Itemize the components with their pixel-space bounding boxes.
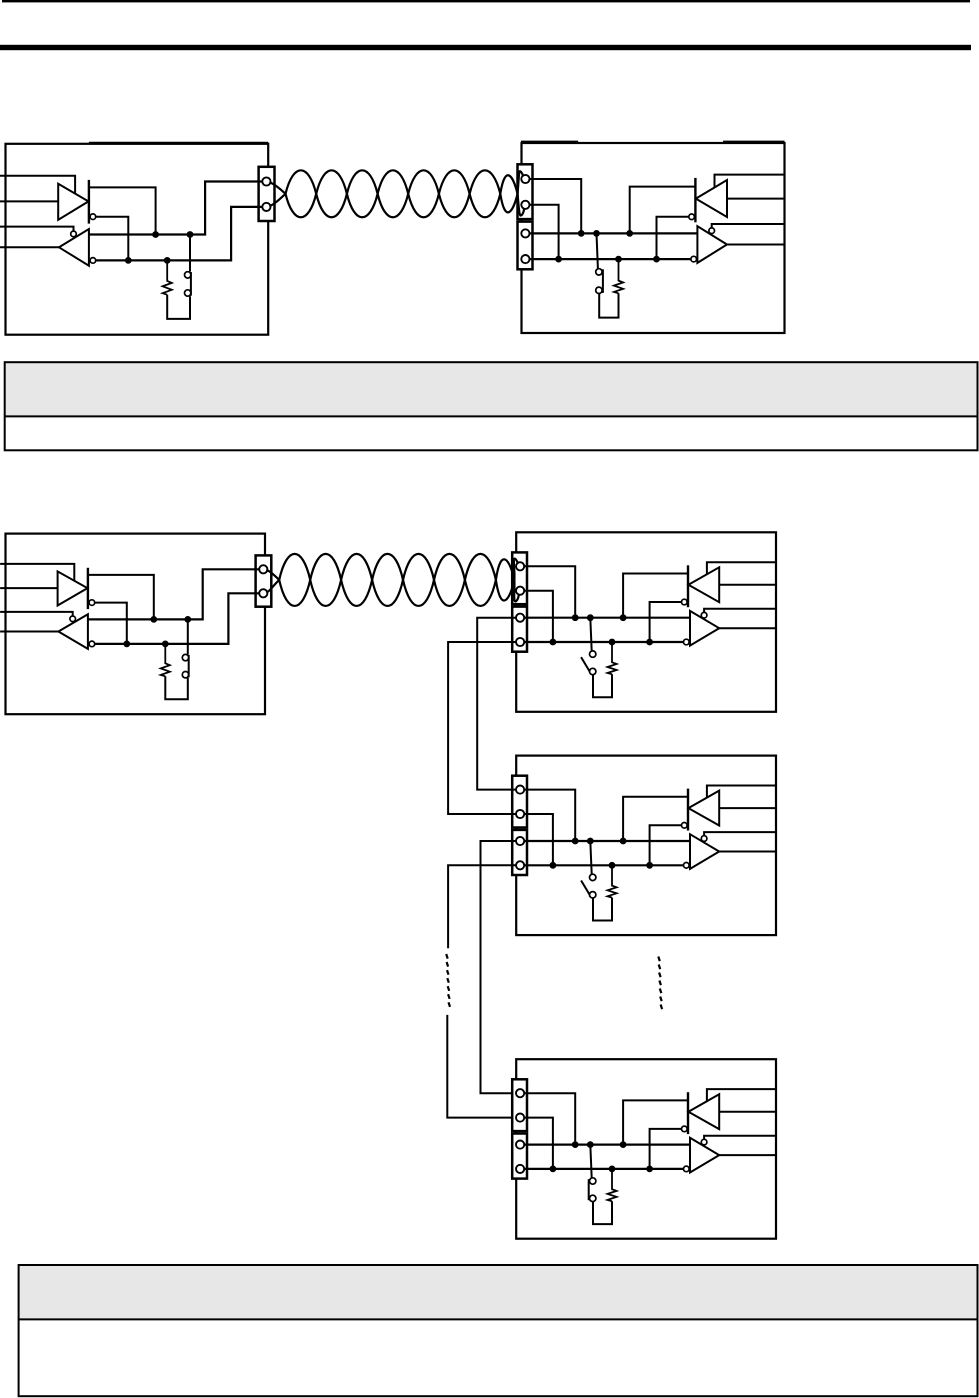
bus wire CN6 pin 4 to CN7 pin 2 xyxy=(448,642,516,814)
junction U7-Z / line B xyxy=(646,639,653,646)
page top rule xyxy=(2,0,970,2)
junction U9-Y / line A xyxy=(620,838,627,845)
master unit box top edge overlap xyxy=(89,142,268,144)
receiver U10 enable wire xyxy=(704,832,776,836)
junction line A / switch SW1 xyxy=(187,231,194,238)
driver U5 inverting output bubble xyxy=(89,600,95,606)
connector CN9 pin 2 xyxy=(516,1114,524,1122)
junction pin2 drop / line B xyxy=(555,256,562,263)
termination switch SW3 (closed) xyxy=(182,619,188,678)
junction U1-Z / line B xyxy=(125,257,132,264)
connector CN1 pin 2 xyxy=(262,203,270,211)
junction U1-Y / line A xyxy=(152,231,159,238)
driver U3 enable wire xyxy=(715,175,785,189)
connector CN6 body (bus out) xyxy=(512,607,527,652)
slave unit 1 outer box xyxy=(516,532,776,712)
receiver U6 enable wire xyxy=(0,612,73,616)
bus wire CN8 pin 3 to CN9 pin 1 xyxy=(481,841,517,1093)
connector CN10 body (bus out) xyxy=(512,1134,527,1179)
receiver U8 enable wire xyxy=(704,609,776,613)
line B wire xyxy=(524,864,684,866)
connector CN7 body (bus in) xyxy=(512,776,527,828)
master unit (multi-drop) outer box xyxy=(6,534,266,715)
connector CN2 pin 2 xyxy=(521,201,529,209)
wire U11 output Z to line B xyxy=(650,1129,682,1169)
wire U7 output Z to line B xyxy=(650,602,682,642)
line A wire xyxy=(524,840,690,842)
receiver U10 enable bubble xyxy=(701,836,707,842)
junction pin2 drop / line B xyxy=(550,862,557,869)
note table 1 frame xyxy=(5,362,978,450)
switch SW4 return wire xyxy=(593,674,612,697)
junction line B / resistor R5 xyxy=(609,862,616,869)
junction pin1 drop / line A xyxy=(572,614,579,621)
wire U1 output Z to line B xyxy=(96,217,129,261)
receiver U12 enable bubble xyxy=(701,1139,707,1145)
twisted pair cable 2 wire B xyxy=(266,554,518,606)
connector CN2 body (bus in) xyxy=(518,164,533,219)
switch SW5 return wire xyxy=(593,898,612,921)
termination resistor R5 xyxy=(608,865,617,897)
driver U11 inverting output bubble xyxy=(682,1126,688,1132)
connector CN9 pin 1 xyxy=(516,1089,524,1097)
bus wire continuation marks (dashed) xyxy=(446,954,450,1007)
termination switch SW2 (closed) xyxy=(596,233,603,293)
connector CN6 pin 3 xyxy=(516,614,524,622)
connector CN1 body xyxy=(259,167,275,221)
connector CN6 pin 4 xyxy=(516,638,524,646)
switch SW6 return wire xyxy=(593,1201,612,1224)
connector CN8 pin 3 xyxy=(516,837,524,845)
driver U5 input wire xyxy=(0,587,58,589)
driver U9 xyxy=(688,789,719,831)
junction pin1 drop / line A xyxy=(572,1141,579,1148)
receiver U12 output wire xyxy=(719,1154,776,1156)
wire U7 output Y to line A xyxy=(623,574,688,618)
driver U1 enable wire xyxy=(0,176,75,194)
line A wire xyxy=(524,1143,690,1145)
termination switch SW1 (closed) xyxy=(185,235,191,297)
receiver U12 enable wire xyxy=(704,1136,776,1140)
junction line A / switch SW2 xyxy=(593,230,600,237)
continuation marks (more slave units) xyxy=(658,957,662,1010)
termination resistor R4 xyxy=(608,642,617,674)
driver U11 enable wire xyxy=(707,1089,776,1102)
junction line B / resistor R1 xyxy=(164,257,171,264)
master unit (link 1) outer box xyxy=(6,144,269,335)
receiver U2 inverting input bubble xyxy=(90,258,96,264)
termination resistor R6 xyxy=(608,1169,617,1201)
junction line A / switch SW5 xyxy=(587,838,594,845)
junction pin2 drop / line B xyxy=(550,639,557,646)
driver U7 xyxy=(688,565,719,607)
connector CN7 pin 1 xyxy=(516,786,524,794)
driver U9 inverting output bubble xyxy=(682,823,688,829)
wire CN7 pin 1 to line A xyxy=(524,790,575,841)
slave unit N outer box xyxy=(516,1059,776,1239)
wire U5 output Z to line B xyxy=(95,603,127,644)
junction line B / resistor R4 xyxy=(609,639,616,646)
junction line A / switch SW6 xyxy=(587,1141,594,1148)
receiver U8 output wire xyxy=(719,627,776,629)
line B wire xyxy=(524,1168,684,1170)
junction pin2 drop / line B xyxy=(550,1166,557,1173)
line B wire (to CN4 pin 2) xyxy=(95,593,260,644)
bus wire continuation to CN9 pin 2 xyxy=(447,1015,516,1118)
junction line B / resistor R6 xyxy=(609,1166,616,1173)
receiver U8 enable bubble xyxy=(701,612,707,618)
note table 1 header fill xyxy=(5,362,978,416)
driver U7 enable wire xyxy=(707,562,776,575)
page header rule xyxy=(0,45,971,50)
receiver U6 inverting input bubble xyxy=(89,641,95,647)
junction U3-Y / line A xyxy=(626,230,633,237)
receiver U8 xyxy=(690,611,719,646)
receiver U10 output wire xyxy=(719,851,776,853)
connector CN10 pin 3 xyxy=(516,1141,524,1149)
wire CN9 pin 2 to line B xyxy=(524,1118,553,1169)
junction pin1 drop / line A xyxy=(572,838,579,845)
wire CN2 pin 2 to line B xyxy=(529,205,558,259)
junction pin1 drop / line A xyxy=(578,230,585,237)
driver U11 xyxy=(688,1092,719,1134)
connector CN4 body xyxy=(256,555,272,606)
note table 1 row divider xyxy=(5,415,978,417)
connector CN5 pin 1 xyxy=(516,562,524,570)
junction U5-Y / line A xyxy=(150,616,157,623)
wire U9 output Z to line B xyxy=(650,825,682,865)
receiver U2 enable bubble xyxy=(71,231,77,237)
wire CN5 pin 2 to line B xyxy=(524,591,553,642)
twisted pair cable 1 wire B xyxy=(269,170,523,217)
driver U5 xyxy=(58,568,88,609)
junction line B / resistor R2 xyxy=(615,256,622,263)
twisted pair cable 2 wire A xyxy=(266,554,519,606)
driver U1 inverting output bubble xyxy=(90,214,96,220)
receiver U12 inverting input bubble xyxy=(684,1166,690,1172)
driver U1 xyxy=(58,180,89,224)
line A wire xyxy=(529,232,697,234)
receiver U8 inverting input bubble xyxy=(684,639,690,645)
junction U7-Y / line A xyxy=(620,614,627,621)
wire U5 output Y to line A xyxy=(88,575,154,620)
connector CN9 body (bus in) xyxy=(512,1079,527,1131)
wire U11 output Y to line A xyxy=(623,1100,688,1144)
slave unit 2 outer box xyxy=(516,756,776,936)
bus wire CN8 pin 4 (down to continuation) xyxy=(448,865,516,948)
wire U9 output Y to line A xyxy=(623,797,688,841)
junction line A / switch SW3 xyxy=(184,616,191,623)
receiver U4 inverting input bubble xyxy=(691,256,697,262)
termination switch SW4 (open) xyxy=(581,618,596,675)
driver U1 input wire xyxy=(0,200,58,202)
connector CN4 pin 1 xyxy=(259,565,267,573)
receiver U6 enable bubble xyxy=(70,616,76,622)
wire U1 output Y to line A xyxy=(89,187,156,234)
driver U3 inverting output bubble xyxy=(689,214,695,220)
receiver U6 output wire xyxy=(0,631,58,633)
receiver U6 xyxy=(58,614,88,649)
termination switch SW6 (closed) xyxy=(589,1145,596,1202)
wire CN7 pin 2 to line B xyxy=(524,814,553,865)
receiver U10 inverting input bubble xyxy=(684,863,690,869)
driver U9 input wire xyxy=(719,807,776,809)
wire U3 output Z to line B xyxy=(657,217,689,259)
driver U9 enable wire xyxy=(707,786,776,799)
receiver U2 output wire xyxy=(0,246,59,248)
junction U3-Z / line B xyxy=(653,256,660,263)
connector CN5 body (bus in) xyxy=(512,552,527,604)
slave unit box top edge overlap xyxy=(521,140,785,142)
wire CN9 pin 1 to line A xyxy=(524,1093,575,1144)
junction U5-Z / line B xyxy=(123,641,130,648)
driver U5 enable wire xyxy=(0,564,74,581)
connector CN3 pin 4 xyxy=(521,255,529,263)
connector CN8 pin 4 xyxy=(516,861,524,869)
connector CN3 pin 3 xyxy=(521,229,529,237)
wire U3 output Y to line A xyxy=(630,187,696,234)
switch SW1 return wire xyxy=(167,295,190,319)
slave unit (link 1) outer box xyxy=(522,143,785,333)
line B wire xyxy=(529,258,691,260)
junction line B / resistor R3 xyxy=(162,641,169,648)
driver U7 input wire xyxy=(719,584,776,586)
twisted pair cable 1 wire A xyxy=(269,170,524,217)
receiver U4 xyxy=(697,226,727,263)
connector CN5 pin 2 xyxy=(516,587,524,595)
connector CN1 pin 1 xyxy=(262,177,270,185)
note table 2 row divider xyxy=(19,1318,978,1320)
receiver U4 enable bubble xyxy=(709,228,715,234)
junction U11-Z / line B xyxy=(646,1166,653,1173)
junction U11-Y / line A xyxy=(620,1141,627,1148)
driver U7 inverting output bubble xyxy=(682,599,688,605)
driver U3 xyxy=(695,178,727,222)
line B wire xyxy=(524,641,684,643)
connector CN3 body (bus out) xyxy=(518,222,533,270)
receiver U2 xyxy=(59,229,89,266)
termination switch SW5 (open) xyxy=(581,841,596,898)
termination resistor R2 xyxy=(614,259,623,293)
connector CN8 body (bus out) xyxy=(512,830,527,875)
line A wire (to CN1 pin 1) xyxy=(89,182,263,235)
driver U11 input wire xyxy=(719,1111,776,1113)
termination resistor R1 xyxy=(163,260,172,294)
switch SW2 return wire xyxy=(599,293,618,317)
connector CN7 pin 2 xyxy=(516,810,524,818)
driver U3 input wire xyxy=(727,198,785,200)
connector CN2 pin 1 xyxy=(521,175,529,183)
bus wire CN6 pin 3 to CN7 pin 1 xyxy=(477,618,516,790)
line A wire xyxy=(524,617,690,619)
note table 2 frame xyxy=(19,1265,978,1396)
wire CN2 pin 1 to line A xyxy=(529,179,581,233)
line A wire (to CN4 pin 1) xyxy=(88,569,260,619)
switch SW3 return wire xyxy=(165,676,188,699)
wire CN5 pin 1 to line A xyxy=(524,566,575,617)
termination resistor R3 xyxy=(161,644,170,676)
junction U9-Z / line B xyxy=(646,862,653,869)
receiver U4 output wire xyxy=(727,244,785,246)
connector CN10 pin 4 xyxy=(516,1165,524,1173)
receiver U10 xyxy=(690,834,719,869)
receiver U4 enable wire xyxy=(712,224,785,228)
receiver U12 xyxy=(690,1138,719,1173)
receiver U2 enable wire xyxy=(0,227,74,232)
connector CN4 pin 2 xyxy=(259,589,267,597)
junction line A / switch SW4 xyxy=(587,614,594,621)
note table 2 header fill xyxy=(19,1265,978,1319)
line B wire (to CN1 pin 2) xyxy=(96,207,263,261)
